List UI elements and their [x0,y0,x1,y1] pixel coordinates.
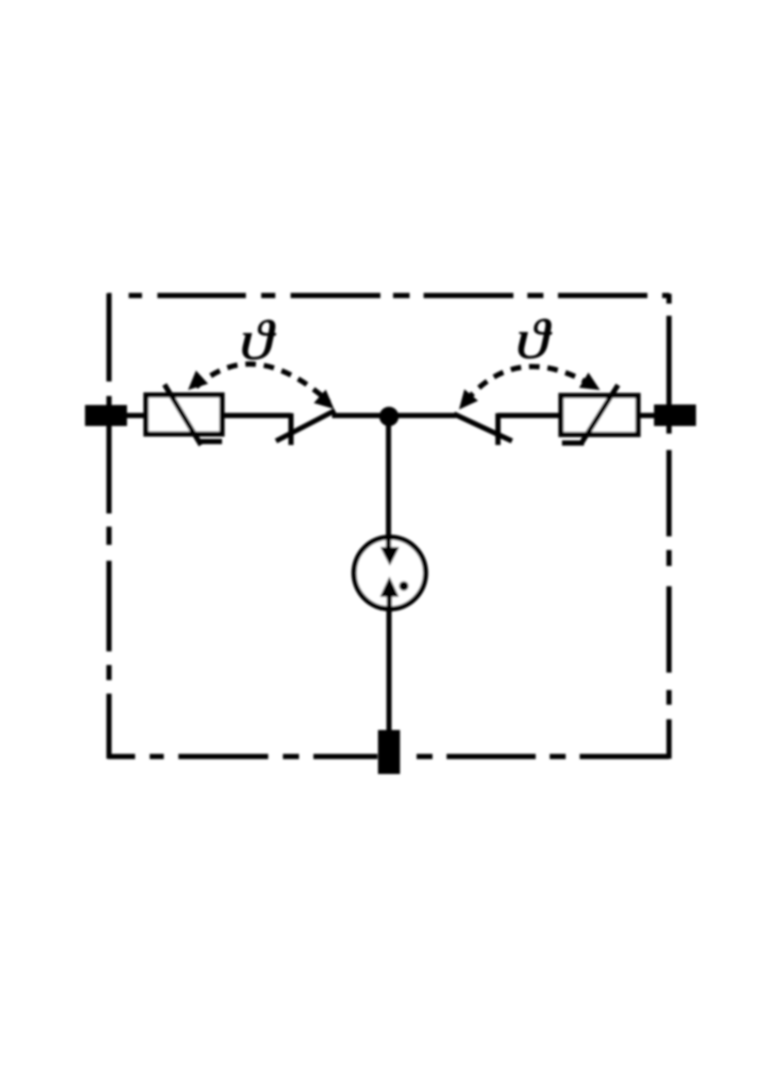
svg-text:ϑ: ϑ [516,308,553,371]
spark gap upper arrowhead (down) [380,547,399,566]
disconnector F2 switch blade [454,414,512,441]
left terminal [85,405,127,426]
wire disconnector F1 to node [332,413,390,418]
enclosure outline top border (dash-dot) [108,293,669,298]
varistor RV2 diagonal stroke [582,385,619,443]
varistor RV1 body [146,395,222,434]
node junction [379,407,398,426]
arc F1 left arrowhead [188,371,208,391]
spark gap lower electrode line [387,594,392,612]
arc F2 left arrowhead [459,389,478,409]
wire spark gap to bottom terminal [386,609,391,733]
varistor RV2 body [561,396,638,435]
arc F1 right arrowhead [314,390,334,409]
disconnector F1 switch blade [276,411,335,442]
varistor RV1 diagonal stroke [165,385,202,446]
enclosure outline bottom border (dash-dot) [108,754,669,759]
right terminal [654,405,696,427]
wire node to disconnector F2 [389,413,456,418]
svg-text:ϑ: ϑ [240,309,277,372]
enclosure outline right border (dash-dot) [666,294,671,759]
thermal coupling arc over F2 (dashed, double arrow) [466,367,595,401]
disconnector F2 fixed contact stub [495,413,500,445]
disconnector F1 fixed contact stub [288,413,293,445]
spark gap lower arrowhead (up) [380,577,399,597]
thermal coupling arc over F1 (dashed, double arrow) [196,364,329,402]
wire node to spark gap [386,416,391,550]
arc F2 right arrowhead [579,373,600,391]
spark gap upper electrode line [386,535,391,550]
varistor RV1 diagonal foot [198,439,222,444]
spark gap gas indicator dot [399,581,408,590]
varistor RV2 diagonal foot [562,440,584,445]
bottom terminal [378,730,400,774]
wire left terminal to varistor RV1 [125,413,148,418]
wire varistor RV2 to right terminal [636,413,658,418]
enclosure outline left border (dash-dot) [106,293,111,759]
spark gap F3 circle [354,537,426,609]
wire disconnector F2 stub to varistor RV2 [498,413,561,418]
wire varistor RV1 to disconnector F1 stub [222,413,291,418]
